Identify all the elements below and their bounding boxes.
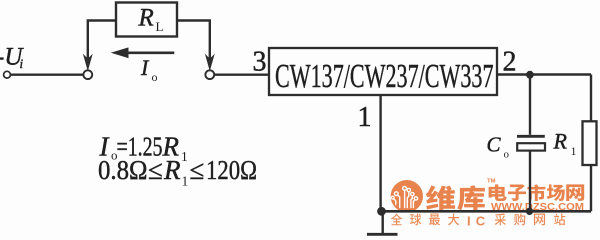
- current Io arrow: [111, 47, 175, 58]
- svg-text:CW137/CW237/CW337: CW137/CW237/CW337: [275, 58, 494, 95]
- label RL: [138, 5, 164, 35]
- label -Ui: [0, 43, 24, 71]
- wire load right drop with current arrow: [177, 21, 215, 72]
- wire R1 top: [590, 75, 592, 122]
- watermark slogan 全球最大IC采购网站: [391, 213, 565, 228]
- pin number 1: [358, 102, 372, 133]
- op-amp / regulator U1 CW137/CW237/CW337: [269, 48, 497, 95]
- label Co: [487, 133, 510, 161]
- pin number 2: [503, 46, 517, 77]
- svg-text:C: C: [487, 133, 502, 157]
- formula Io=1.25R1: [99, 132, 188, 165]
- wire capacitor top: [529, 75, 531, 135]
- watermark text 电子市场网: [489, 184, 585, 201]
- wire bottom rail: [381, 210, 591, 213]
- svg-text:TM: TM: [487, 179, 496, 185]
- ground: [367, 211, 398, 234]
- formula 0.8ohm le R1 le 120ohm: [98, 155, 257, 189]
- svg-text:3: 3: [253, 46, 267, 77]
- svg-text:120Ω: 120Ω: [206, 155, 257, 185]
- resistor RL: [116, 3, 177, 37]
- svg-text:1: 1: [358, 102, 372, 133]
- svg-text:o: o: [504, 149, 510, 161]
- wire load left drop with current arrow: [83, 21, 116, 72]
- node A (left load terminal): [83, 70, 92, 79]
- junction dot rail capacitor: [526, 208, 533, 215]
- svg-text:2: 2: [503, 46, 517, 77]
- wire input: [11, 73, 84, 75]
- resistor R1: [583, 121, 597, 165]
- svg-text:R: R: [138, 5, 154, 32]
- node B (right load terminal): [205, 70, 214, 79]
- svg-text:L: L: [156, 19, 164, 34]
- label Io: [140, 55, 158, 84]
- wire pin 1 down: [379, 95, 381, 211]
- svg-text:0.8Ω: 0.8Ω: [98, 155, 148, 185]
- svg-text:I: I: [467, 213, 471, 228]
- label R1: [553, 129, 577, 158]
- svg-text:≤: ≤: [148, 155, 163, 185]
- svg-text:1: 1: [182, 174, 189, 189]
- pin number 3: [253, 46, 267, 77]
- junction dot rail left: [377, 207, 386, 216]
- svg-text:C: C: [476, 213, 486, 228]
- svg-text:o: o: [152, 70, 158, 84]
- wire pin 2 output: [497, 73, 591, 75]
- svg-text:1: 1: [571, 144, 577, 158]
- watermark brand text 维库: [426, 179, 496, 211]
- svg-text:R: R: [553, 129, 568, 154]
- svg-text:≤: ≤: [190, 155, 205, 185]
- wire R1 bottom: [590, 165, 592, 211]
- svg-text:1: 1: [181, 149, 188, 164]
- svg-text:I: I: [140, 55, 150, 80]
- capacitor Co: [517, 136, 545, 150]
- svg-text:i: i: [20, 56, 24, 71]
- label CW137/CW237/CW337: [275, 58, 494, 95]
- wire capacitor bottom: [529, 151, 531, 212]
- wire to pin 3: [214, 73, 269, 75]
- junction dot output: [526, 71, 534, 79]
- terminal input -Ui: [4, 71, 11, 78]
- watermark logo circle: [391, 180, 423, 212]
- svg-text:R: R: [163, 155, 181, 185]
